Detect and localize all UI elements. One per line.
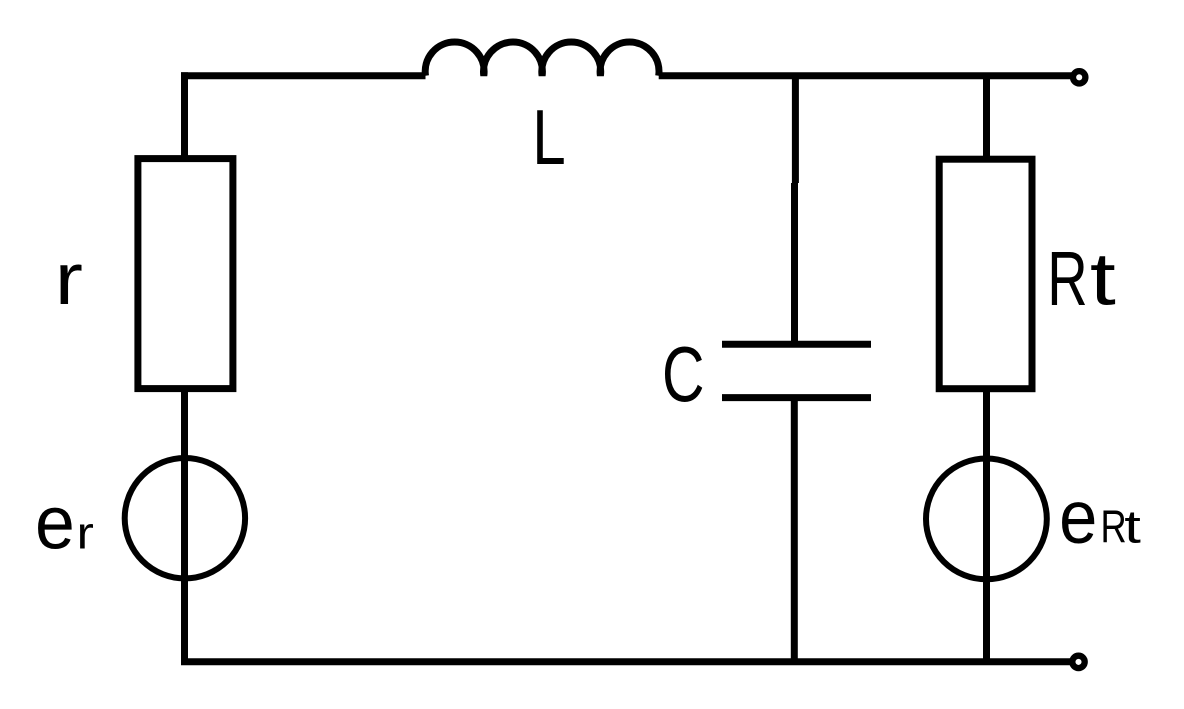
terminal bottom-right [1072, 656, 1084, 668]
wire left vertical upper [181, 72, 188, 162]
resistor r [138, 159, 233, 389]
capacitor C top plate [722, 341, 871, 348]
source e_r [125, 458, 245, 578]
wire top-left horizontal segment [181, 72, 426, 79]
svg-text:e: e [1059, 476, 1097, 559]
svg-text:e: e [35, 481, 75, 565]
svg-text:t: t [1124, 502, 1141, 553]
wire bottom horizontal [181, 658, 1072, 665]
resistor Rt [939, 159, 1032, 389]
wire left vertical lower [181, 389, 188, 662]
wire right vertical upper [983, 76, 990, 162]
source e_Rt [926, 459, 1047, 580]
inductor L [425, 42, 659, 76]
terminal top-right [1073, 71, 1085, 83]
svg-text:R: R [1101, 500, 1127, 552]
svg-text:r: r [77, 509, 94, 559]
wire middle vertical lower [791, 398, 798, 662]
wire middle vertical upper [792, 76, 799, 183]
svg-text:C: C [662, 330, 705, 418]
wire top-right horizontal segment [659, 72, 1074, 79]
svg-text:t: t [1090, 238, 1116, 321]
wire right vertical lower [983, 389, 990, 662]
svg-text:L: L [532, 93, 565, 180]
wire middle vertical upper second segment [791, 183, 798, 344]
capacitor C bottom plate [722, 394, 871, 401]
svg-text:R: R [1047, 236, 1087, 322]
svg-text:r: r [55, 237, 83, 320]
